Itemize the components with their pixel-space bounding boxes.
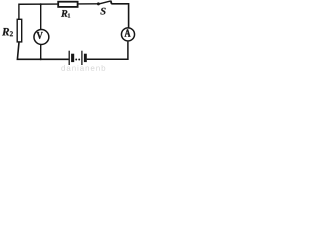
battery cell 2 short thick electrode [84,54,87,62]
label S [100,8,105,15]
battery dot 1 [75,59,77,61]
watermark [61,65,105,71]
wire: R2 bottom to bottom-left corner, right to battery [17,42,68,59]
wire: voltmeter branch top [40,4,42,30]
resistor R2 (vertical box) [17,19,22,42]
wire: battery right to bottom-right corner, up to ammeter bottom [87,42,128,60]
switch S blade tip hook [110,1,113,4]
resistor R1 (horizontal box) [58,2,77,7]
wire: voltmeter bottom branch [40,44,42,59]
wire: switch right terminal to top-right corner, down to ammeter top [111,4,128,28]
label R2 [2,28,9,35]
wire: R2 top up to top-left corner, right to R1 left terminal [19,4,58,19]
battery cell 2 long electrode [81,51,83,65]
junction node: voltmeter branch / top wire [40,3,42,5]
battery dot 2 [78,59,80,61]
junction node: voltmeter branch / bottom wire [40,58,42,60]
switch S left contact dot [97,2,100,5]
wire: R1 right terminal to switch left contact [78,3,98,5]
battery cell 1 short thick electrode [71,54,74,62]
voltmeter V [34,30,49,45]
ammeter A [121,28,134,41]
switch S blade [99,1,111,4]
label R1 [61,10,67,17]
battery cell 1 long electrode [68,51,70,65]
